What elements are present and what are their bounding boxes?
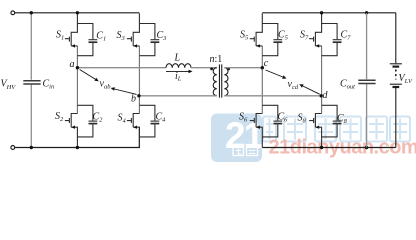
transistor S8 [309, 114, 322, 148]
transistor S6 [250, 114, 262, 148]
node b [137, 94, 140, 97]
capacitor C4 [139, 105, 159, 137]
node c [261, 66, 264, 69]
terminal bottom-left [11, 146, 15, 150]
voltage arrow v_cd from c [266, 70, 283, 77]
capacitor C8 [322, 105, 342, 137]
capacitor C5 [262, 24, 282, 56]
capacitor Cout [366, 13, 368, 148]
current arrow iL [166, 70, 189, 72]
transistor S5 [250, 13, 262, 46]
wire node a to inductor [77, 67, 166, 69]
capacitor C2 [77, 105, 97, 137]
watermark 21dianyuan logo badge [211, 114, 264, 163]
voltage arrow v_ab from a [80, 70, 96, 80]
svg-text:a: a [70, 59, 75, 70]
capacitor Cin [30, 13, 32, 148]
wire leg A vertical [76, 46, 78, 114]
svg-text:c: c [264, 58, 269, 69]
wire bottom rail right bridge [262, 147, 396, 149]
capacitor C3 [139, 24, 159, 56]
wire node b to transformer [139, 95, 216, 97]
voltage arrow v_cd from d [303, 86, 320, 94]
node a [76, 66, 79, 69]
capacitor C6 [262, 105, 282, 137]
svg-text:b: b [131, 94, 136, 105]
svg-text:L: L [174, 53, 181, 64]
wire leg C vertical [261, 46, 263, 114]
transistor S3 [127, 13, 139, 46]
terminal top-left [11, 11, 15, 15]
node d [320, 94, 323, 97]
wire bottom rail left bridge [15, 127, 140, 147]
wire transformer to node d [224, 95, 321, 97]
inductor L [166, 64, 191, 68]
watermark chinese outline glyphs [263, 117, 410, 142]
transformer polarity dots [210, 68, 213, 71]
transistor S7 [309, 13, 322, 46]
junction dots bottom rail [30, 146, 33, 149]
svg-text:n:1: n:1 [210, 54, 223, 65]
capacitor C1 [77, 24, 97, 56]
capacitor C7 [322, 24, 342, 56]
transformer T1 [213, 64, 228, 97]
voltage arrow v_ab from b [115, 89, 137, 94]
transistor S2 [65, 114, 78, 148]
transistor S1 [65, 13, 78, 46]
wire inductor to transformer [191, 67, 217, 69]
wire top rail right bridge [262, 12, 396, 14]
wire leg D vertical [321, 46, 323, 114]
battery V_LV [390, 13, 402, 148]
wire top rail left bridge [15, 12, 140, 14]
transistor S4 [127, 114, 139, 148]
wire transformer to node c [224, 67, 262, 69]
junction dots top rail [30, 11, 33, 14]
wire leg B vertical [138, 46, 140, 114]
